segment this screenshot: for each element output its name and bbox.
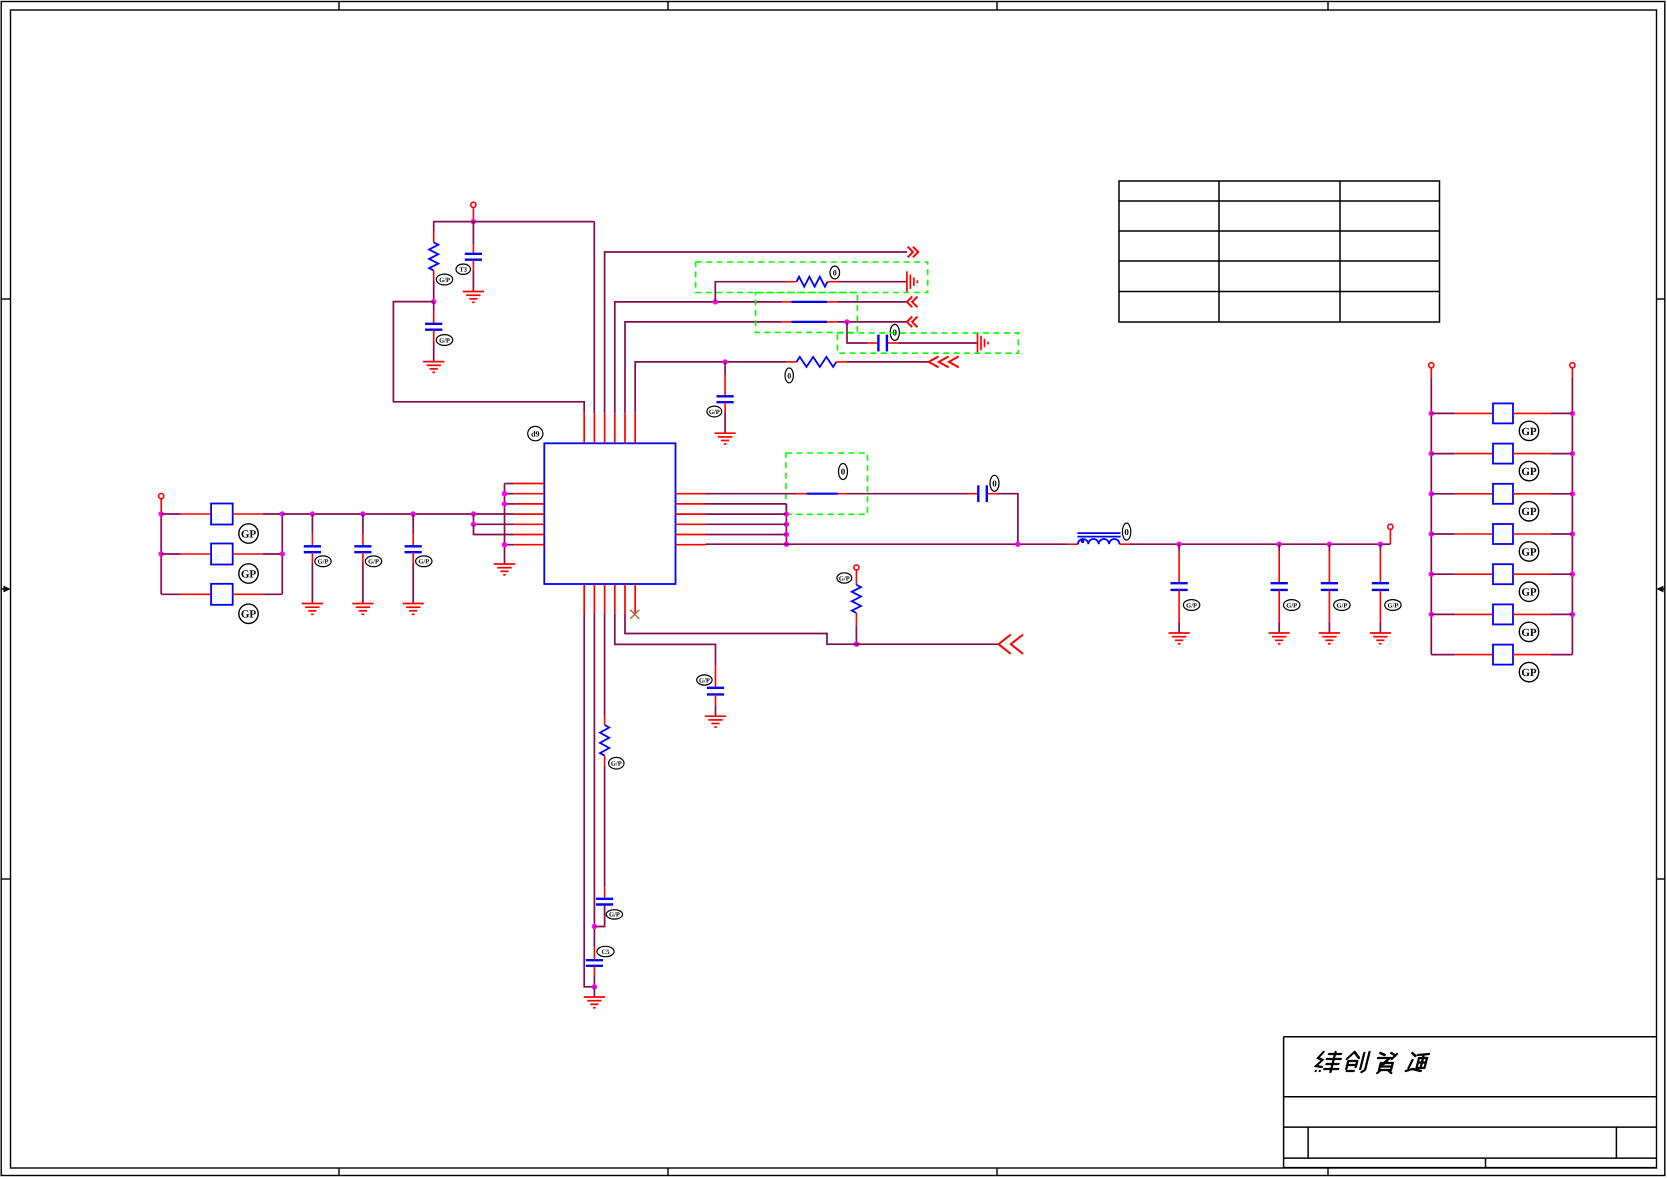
svg-text:G/P: G/P xyxy=(1387,602,1398,609)
J1 left lead xyxy=(781,321,791,323)
junction rail row2 xyxy=(159,551,164,556)
capacitor C30 xyxy=(1171,583,1188,590)
wire to R1 xyxy=(433,222,435,231)
C6 top lead xyxy=(604,887,606,898)
FB8 label GP xyxy=(1519,582,1538,601)
ground G5 xyxy=(715,433,736,444)
junction bus L2 xyxy=(502,491,507,496)
svg-text:G/P: G/P xyxy=(1286,602,1297,609)
C30 bottom lead xyxy=(1178,590,1180,622)
C12 top lead xyxy=(412,534,414,546)
J1 right lead xyxy=(827,321,837,323)
wire ladder row1 right xyxy=(1551,453,1572,455)
R5 bottom lead xyxy=(604,756,606,766)
revision table xyxy=(1119,181,1440,322)
C20 left lead xyxy=(968,493,978,495)
wire to C11 xyxy=(362,514,364,534)
wire C7 to node I xyxy=(593,975,595,987)
C3 label xyxy=(890,324,899,340)
no-connect X on pin B6 xyxy=(630,610,639,619)
wire row1 left xyxy=(161,513,180,515)
wire pin B2 net upper xyxy=(593,614,595,947)
L1 label xyxy=(1122,523,1130,540)
junction node I xyxy=(592,984,597,989)
FB8 right lead xyxy=(1513,573,1551,575)
svg-text:GP: GP xyxy=(241,609,257,621)
svg-text:G/P: G/P xyxy=(699,677,710,684)
ground G2 xyxy=(423,362,444,373)
wire R5 to C6 xyxy=(604,766,606,887)
left pin bus xyxy=(504,484,506,565)
company name text xyxy=(1314,1052,1429,1073)
C20 label xyxy=(990,475,999,491)
off-page connector IN2 xyxy=(907,317,918,328)
ground G11 xyxy=(352,604,373,615)
R3 right lead xyxy=(836,361,847,363)
wire C6 to node H xyxy=(594,906,604,927)
stub from P1 xyxy=(472,207,474,221)
wire net A to pin2 vertical xyxy=(593,222,595,414)
wire C11 to ground xyxy=(362,563,364,604)
C32 label xyxy=(1334,600,1350,611)
FB3 right lead xyxy=(233,593,263,595)
wire J3 to connector xyxy=(837,301,907,303)
junction ladder L0 xyxy=(1429,411,1434,416)
wire net A horizontal xyxy=(433,221,594,223)
branch to pin L6 xyxy=(474,524,515,534)
wire pin T3 net xyxy=(605,252,907,413)
junction ladder L5 xyxy=(1429,612,1434,617)
junction ladder L1 xyxy=(1429,451,1434,456)
R2 left lead xyxy=(786,281,797,283)
capacitor C1 xyxy=(465,254,482,260)
off-page connector IN3 xyxy=(929,356,959,367)
C21 bottom lead xyxy=(715,694,717,706)
junction node D xyxy=(844,319,849,324)
branch to pin L5 xyxy=(474,514,515,524)
wire node B to C2 xyxy=(433,302,435,312)
junction main-out xyxy=(1015,542,1020,547)
FB6 right lead xyxy=(1513,493,1551,495)
FB4 left lead xyxy=(1455,412,1493,414)
bus stub pin L2 xyxy=(505,493,515,495)
R3 label xyxy=(785,368,793,383)
wire pin T6 net segment xyxy=(635,362,786,413)
ground G30 xyxy=(1169,633,1190,644)
wire R4 down xyxy=(855,626,857,644)
svg-text:G/P: G/P xyxy=(368,559,379,566)
wire C2 to ground xyxy=(433,341,435,361)
FB10 label GP xyxy=(1519,662,1538,681)
C10 bottom lead xyxy=(311,552,313,563)
wire pin B1 net xyxy=(584,614,594,987)
off-page connector IN4 xyxy=(999,635,1024,654)
R5 label xyxy=(609,757,624,769)
wire C31 gnd xyxy=(1278,622,1280,633)
FB2 left lead xyxy=(181,553,212,555)
J3 left lead xyxy=(781,301,791,303)
junction mini rail row2 xyxy=(280,551,285,556)
wire C12 to ground xyxy=(412,563,414,604)
wire pin T5 net segment xyxy=(625,322,781,413)
wire node A down to C1 xyxy=(472,222,474,245)
resistor R1 xyxy=(429,242,438,270)
junction ladder R3 xyxy=(1570,531,1575,536)
svg-text:G/P: G/P xyxy=(318,559,329,566)
junction ladder R1 xyxy=(1570,451,1575,456)
svg-text:GP: GP xyxy=(1521,587,1537,599)
wire pin B4 net xyxy=(615,614,716,665)
wire pin B5 net xyxy=(625,614,999,644)
ground G1 xyxy=(463,292,484,303)
junction node C xyxy=(713,299,718,304)
power terminal P3 xyxy=(1388,524,1393,529)
C1 bottom lead xyxy=(472,260,474,270)
wire to C31 xyxy=(1278,544,1280,551)
svg-text:GP: GP xyxy=(241,528,257,540)
svg-text:G/P: G/P xyxy=(839,575,850,582)
C31 label xyxy=(1284,600,1300,611)
wire R3 to connector xyxy=(847,361,929,363)
junction mini rail row1 xyxy=(280,511,285,516)
junction ladder R5 xyxy=(1570,612,1575,617)
svg-text:G/P: G/P xyxy=(1186,602,1197,609)
junction node A xyxy=(471,219,476,224)
svg-text:G/P: G/P xyxy=(609,912,620,919)
C21 top lead xyxy=(715,665,717,687)
wire C3 to ground xyxy=(898,342,977,344)
svg-text:GP: GP xyxy=(1521,627,1537,639)
C10 top lead xyxy=(311,534,313,546)
ground G6 xyxy=(494,564,515,575)
C4 top lead xyxy=(724,375,726,396)
wire ladder row2 right xyxy=(1551,493,1572,495)
svg-text:G/P: G/P xyxy=(418,559,429,566)
wire to C12 xyxy=(412,514,414,534)
junction node H xyxy=(592,924,597,929)
power terminal P1 xyxy=(471,202,476,207)
wire C4 to ground xyxy=(724,412,726,433)
junction at x473 xyxy=(471,511,476,516)
svg-text:GP: GP xyxy=(1521,426,1537,438)
C11 label xyxy=(365,556,381,567)
FB9 right lead xyxy=(1513,613,1551,615)
wire C21 gnd xyxy=(715,706,717,716)
capacitor C4 xyxy=(717,396,734,402)
junction bus L7 xyxy=(502,542,507,547)
ferrite bead FB3 xyxy=(211,584,233,605)
svg-text:GP: GP xyxy=(241,568,257,580)
svg-text:GP: GP xyxy=(1521,506,1537,518)
junction node B xyxy=(431,299,436,304)
capacitor C32 xyxy=(1321,583,1338,590)
wire ladder row1 left xyxy=(1431,453,1455,455)
svg-text:C5: C5 xyxy=(602,949,611,956)
junction short rail y544 xyxy=(784,542,789,547)
bus stub pin L3 xyxy=(505,503,515,505)
R4 bottom lead xyxy=(855,613,857,626)
variant box V4 xyxy=(786,453,868,514)
svg-text:0: 0 xyxy=(833,268,837,277)
power terminal P5 xyxy=(1429,363,1434,368)
power terminal P2 xyxy=(159,494,164,499)
L1 right lead xyxy=(1120,543,1130,545)
ferrite bead FB5 xyxy=(1493,444,1513,464)
junction short rail y534 xyxy=(784,532,789,537)
R1 value label xyxy=(436,274,452,285)
FB5 left lead xyxy=(1455,453,1493,455)
junction outnet c3 xyxy=(1378,542,1383,547)
wire to C30 xyxy=(1178,544,1180,551)
wire to C10 xyxy=(311,514,313,534)
FB6 left lead xyxy=(1455,493,1493,495)
svg-text:G/P: G/P xyxy=(439,337,450,344)
FB10 left lead xyxy=(1455,654,1493,656)
FB10 right lead xyxy=(1513,654,1551,656)
C33 top lead xyxy=(1379,551,1381,582)
FB4 label GP xyxy=(1519,421,1538,440)
capacitor C20 xyxy=(978,485,987,502)
wire to C32 xyxy=(1328,544,1330,551)
IC U1 top pins xyxy=(584,413,635,443)
FB7 right lead xyxy=(1513,533,1551,535)
C12 bottom lead xyxy=(412,552,414,563)
left rail xyxy=(160,514,162,594)
main net wire xyxy=(282,513,514,515)
wire R1 to node B xyxy=(433,281,435,302)
wire row2 right xyxy=(263,553,282,555)
wire ladder row2 left xyxy=(1431,493,1455,495)
ground G32 xyxy=(1319,633,1340,644)
C1 label xyxy=(456,264,470,274)
junction bus L3 xyxy=(502,501,507,506)
junction at x312 xyxy=(310,511,315,516)
FB2 label GP xyxy=(239,564,258,583)
J2 right lead xyxy=(838,493,847,495)
wire ladder row3 left xyxy=(1431,533,1455,535)
variant box V2 xyxy=(756,293,858,333)
wire pin R3 xyxy=(706,513,787,515)
capacitor C6 xyxy=(596,899,613,905)
wire J1 to node D xyxy=(837,321,907,323)
FB1 label GP xyxy=(239,524,258,543)
ground G21 xyxy=(705,716,726,727)
svg-text:G/P: G/P xyxy=(439,277,450,284)
jumper J3 xyxy=(791,301,827,303)
C30 label xyxy=(1183,600,1199,611)
junction node E xyxy=(722,359,727,364)
svg-text:GP: GP xyxy=(1521,466,1537,478)
resistor R4 xyxy=(852,585,861,613)
stub from P5 xyxy=(1430,368,1432,378)
ground G10 xyxy=(302,604,323,615)
capacitor C3 xyxy=(878,335,887,352)
svg-text:GP: GP xyxy=(1521,546,1537,558)
C31 top lead xyxy=(1278,551,1280,582)
C32 top lead xyxy=(1328,551,1330,582)
main output net xyxy=(706,543,1068,545)
R1 bottom lead xyxy=(433,271,435,281)
jumper J2 xyxy=(807,493,838,495)
FB9 left lead xyxy=(1455,613,1493,615)
FB1 right lead xyxy=(233,513,263,515)
IC U1 body xyxy=(544,443,675,584)
wire node D to C3 xyxy=(847,322,868,343)
junction ladder L4 xyxy=(1429,572,1434,577)
L1 left lead xyxy=(1068,543,1078,545)
C2 bottom lead xyxy=(433,330,435,342)
ferrite bead FB6 xyxy=(1493,484,1513,504)
capacitor C11 xyxy=(354,546,371,552)
C4 label xyxy=(707,406,722,417)
IC U1 left pins xyxy=(514,484,544,545)
C21 label xyxy=(697,675,712,685)
junction short rail y524 xyxy=(784,522,789,527)
FB3 left lead xyxy=(181,593,212,595)
C11 bottom lead xyxy=(362,552,364,563)
terminal stub P3 xyxy=(1389,529,1391,544)
junction ladder L3 xyxy=(1429,531,1434,536)
variant box V1 xyxy=(696,262,928,293)
ferrite bead FB9 xyxy=(1493,604,1513,624)
IC U1 designator label xyxy=(528,426,543,440)
wire pin R2 xyxy=(706,503,787,505)
bus stub pin L7 xyxy=(505,544,515,546)
junction at x362 xyxy=(360,511,365,516)
wire pin B3 upper xyxy=(604,614,606,716)
C4 bottom lead xyxy=(724,402,726,412)
R5 top lead xyxy=(604,716,606,726)
wire ladder row4 right xyxy=(1551,573,1572,575)
C7 label xyxy=(597,946,614,956)
title block xyxy=(1284,1037,1657,1168)
variant box V3 xyxy=(838,333,1019,353)
wire ladder row5 right xyxy=(1551,613,1572,615)
ground G7 xyxy=(584,997,605,1008)
C30 top lead xyxy=(1178,551,1180,582)
R2 right lead xyxy=(828,281,839,283)
inductor L1 xyxy=(1077,533,1120,544)
FB2 right lead xyxy=(233,553,263,555)
wire ladder row5 left xyxy=(1431,613,1455,615)
stub from P6 xyxy=(1571,368,1573,378)
C7 top lead xyxy=(593,947,595,960)
ferrite bead FB10 xyxy=(1493,645,1513,665)
svg-text:0: 0 xyxy=(992,479,997,489)
junction node F xyxy=(471,522,476,527)
wire R2 to ground xyxy=(838,281,906,283)
svg-text:T3: T3 xyxy=(459,267,467,274)
wire ladder row6 right xyxy=(1551,654,1572,656)
svg-text:0: 0 xyxy=(787,371,791,380)
FB7 label GP xyxy=(1519,542,1538,561)
FB7 left lead xyxy=(1455,533,1493,535)
FB1 left lead xyxy=(181,513,212,515)
J2 label xyxy=(839,464,848,480)
wire row1 right xyxy=(263,513,282,515)
wire ladder row6 left xyxy=(1431,654,1455,656)
junction ladder R4 xyxy=(1570,572,1575,577)
off-page connector OUT1 xyxy=(908,247,919,258)
C7 bottom lead xyxy=(593,966,595,976)
C2 label xyxy=(436,335,452,346)
IC U1 bottom pins xyxy=(584,584,635,614)
capacitor C21 xyxy=(707,688,724,695)
J2 left lead xyxy=(796,493,807,495)
right short rail xyxy=(785,504,787,544)
junction ladder R2 xyxy=(1570,491,1575,496)
FB3 label GP xyxy=(239,604,258,623)
power terminal P6 xyxy=(1570,363,1575,368)
resistor R2 xyxy=(797,277,828,287)
wire node I to ground xyxy=(593,987,595,997)
wire ladder row3 right xyxy=(1551,533,1572,535)
C10 label xyxy=(315,556,331,567)
IC U1 right pins xyxy=(676,494,706,545)
C33 bottom lead xyxy=(1379,590,1381,622)
ground G31 xyxy=(1269,633,1290,644)
C32 bottom lead xyxy=(1328,590,1330,622)
C12 label xyxy=(416,556,432,567)
wire to C33 xyxy=(1379,544,1381,551)
wire row3 left xyxy=(161,593,180,595)
J3 right lead xyxy=(827,301,837,303)
C20 right lead xyxy=(988,493,998,495)
wire ladder row0 left xyxy=(1431,412,1455,414)
junction outnet c1 xyxy=(1277,542,1282,547)
junction at x413 xyxy=(411,511,416,516)
output net right xyxy=(1130,543,1391,545)
junction outnet c0 xyxy=(1176,542,1181,547)
wire C30 gnd xyxy=(1178,622,1180,633)
FB8 left lead xyxy=(1455,573,1493,575)
ferrite bead FB1 xyxy=(211,504,233,525)
stub from P2 xyxy=(160,499,162,514)
svg-text:GP: GP xyxy=(1521,667,1537,679)
ferrite bead FB7 xyxy=(1493,524,1513,544)
capacitor C7 xyxy=(586,960,603,966)
junction node G xyxy=(854,642,859,647)
capacitor C10 xyxy=(304,546,321,552)
junction rail row1 xyxy=(159,511,164,516)
wire C1 to ground xyxy=(472,270,474,292)
capacitor C12 xyxy=(405,546,422,552)
svg-text:0: 0 xyxy=(841,467,846,477)
wire row3 right xyxy=(263,593,282,595)
wire J2 to C20 xyxy=(847,493,968,495)
C6 label xyxy=(606,910,622,919)
svg-text:0: 0 xyxy=(1124,527,1129,537)
wire pin R4 xyxy=(706,523,787,525)
resistor R3 xyxy=(797,357,837,367)
ferrite bead FB4 xyxy=(1493,403,1513,423)
FB6 label GP xyxy=(1519,502,1538,521)
power terminal P4 xyxy=(854,565,859,570)
wire node B left xyxy=(393,302,584,414)
svg-text:d9: d9 xyxy=(531,429,539,438)
C3 right lead xyxy=(888,342,898,344)
ladder left rail xyxy=(1430,378,1432,655)
ferrite bead FB8 xyxy=(1493,564,1513,584)
off-page connector IN1 xyxy=(907,297,918,308)
C11 top lead xyxy=(362,534,364,546)
jumper J1 xyxy=(791,321,827,323)
ground G12 xyxy=(403,604,424,615)
wire C33 gnd xyxy=(1379,622,1381,633)
resistor R5 xyxy=(600,725,609,756)
junction short rail y514 xyxy=(784,511,789,516)
wire ladder row4 left xyxy=(1431,573,1455,575)
